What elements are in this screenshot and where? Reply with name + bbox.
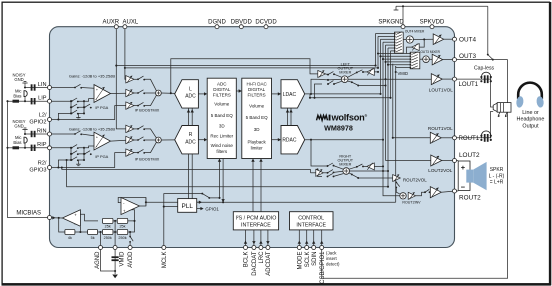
switch RIN: [74, 131, 82, 135]
node L2 col b: [70, 112, 72, 114]
node R2 tap: [57, 166, 59, 168]
op-amp micbias: [62, 210, 80, 227]
node cl2 c: [83, 112, 85, 114]
svg-text:RIP: RIP: [37, 142, 47, 148]
node lmix fb v2: [377, 71, 379, 73]
wire CSB: [321, 230, 323, 246]
node v2: [377, 67, 379, 69]
svg-text:L2/: L2/: [39, 112, 47, 118]
wire bias feed left: [19, 100, 25, 102]
switch rmix out lower: [351, 173, 359, 179]
svg-text:Rec Limiter: Rec Limiter: [210, 133, 233, 138]
svg-text:MODE: MODE: [298, 252, 304, 270]
LDAC block: [281, 80, 305, 108]
pin R2/GPIO3: [29, 160, 51, 173]
resistor 25k a: [102, 218, 113, 223]
pin ADCDAT: [266, 246, 272, 276]
svg-text:ROUT1: ROUT1: [459, 135, 480, 142]
I2S PCM audio interface label: [235, 216, 276, 229]
wire lmix b in: [318, 78, 328, 81]
node v3: [379, 93, 381, 95]
node v4 out3 tap: [382, 58, 384, 60]
wire agnd riser: [100, 232, 102, 246]
wire bias rail tap right: [8, 147, 13, 149]
node RIN junction: [24, 133, 26, 135]
wire AUXL bus: [125, 67, 378, 69]
wire R boost join mid: [144, 139, 155, 141]
wire attenuator out: [407, 47, 412, 53]
wire ROUT1VOL to pin: [441, 137, 452, 139]
switch RIP c: [71, 157, 79, 161]
svg-text:R: R: [189, 132, 193, 138]
mic bias label (left ch): [13, 88, 21, 98]
svg-text:DBVDD: DBVDD: [231, 20, 253, 26]
wire OUT3 mixer to amp: [429, 58, 432, 60]
pin OUT3: [453, 53, 477, 62]
mixer IP BOOSTMIX right: [156, 137, 162, 143]
arrow adc data: [221, 199, 224, 202]
mic bias label (right ch): [13, 135, 21, 145]
wire cluster col2: [78, 101, 84, 113]
svg-text:AUXL: AUXL: [123, 20, 139, 26]
Hi-Fi DAC filters text: [246, 82, 269, 151]
wire R2 riser to cluster: [58, 148, 71, 168]
amp ROUT1VOL: [430, 132, 441, 143]
wire rmix c to circle: [334, 174, 344, 177]
OUT4 mixer switch blades: [394, 32, 402, 52]
wire rmix upper right: [349, 167, 357, 169]
node v5a: [384, 78, 386, 80]
bus v3 LDAC: [380, 39, 382, 94]
node rcl2 c: [83, 159, 85, 161]
bus v5 left mix: [385, 45, 387, 160]
ground stub in right cluster: [76, 160, 80, 166]
node lmix lower v5: [384, 84, 386, 86]
wire opamp minus down: [79, 227, 81, 232]
svg-text:INTERFACE: INTERFACE: [296, 223, 326, 229]
wire AUXL rail: [124, 29, 127, 80]
resistor 25k b: [117, 218, 128, 223]
switch L boost aux: [137, 76, 145, 80]
pin DACDAT: [252, 246, 258, 276]
amp ROUT2: [430, 187, 441, 198]
wire vmid column: [114, 221, 116, 246]
wire left mixer out: [348, 78, 431, 80]
svg-text:ADCDAT: ADCDAT: [266, 251, 272, 276]
node vmid top: [395, 71, 397, 73]
amp LOUT1VOL: [431, 74, 442, 85]
wire wrb2: [134, 139, 138, 141]
wire R PGA out: [111, 139, 126, 142]
pin LOUT1: [453, 77, 479, 88]
OUT3 mixer switch blades: [410, 52, 418, 69]
wire OUT3 sleeve drop: [507, 60, 509, 103]
amp ROUT2VOL: [393, 174, 401, 181]
svg-text:4k: 4k: [68, 236, 72, 240]
svg-text:5 Band EQ: 5 Band EQ: [211, 113, 234, 118]
svg-text:DACDAT: DACDAT: [252, 251, 258, 276]
OUT4 mixer input lines: [376, 34, 395, 51]
node adc data join: [222, 201, 224, 203]
svg-text:SCLK: SCLK: [305, 252, 311, 268]
wire R boost join top: [144, 129, 156, 138]
svg-text:ROUT2VOL: ROUT2VOL: [403, 178, 427, 183]
wire rmix a to circle: [334, 166, 344, 170]
wire lmix upper right: [348, 72, 357, 77]
noisy gnd symbol (right ch): [22, 128, 27, 134]
RDAC block: [281, 126, 305, 154]
pin SPKGND: [378, 20, 405, 29]
boost amp R pga: [126, 136, 134, 143]
speaker driver: [466, 170, 473, 183]
wire rmix lower in: [318, 169, 323, 176]
wire sysclk: [209, 161, 219, 198]
speaker terminal box: [458, 161, 470, 191]
svg-text:OUT4: OUT4: [459, 36, 476, 43]
wire wb1: [134, 78, 138, 80]
wire rmix bypass in: [311, 172, 316, 174]
wire AUXR bus: [116, 65, 375, 67]
svg-text:SPKGND: SPKGND: [378, 20, 404, 26]
wire LOUT1 external: [457, 79, 494, 107]
svg-text:CONTROL: CONTROL: [298, 216, 324, 222]
coupling capacitor RIP: [32, 145, 35, 151]
wire L2 to boost: [52, 106, 126, 120]
wire capless select vertical: [487, 6, 489, 54]
bus v1 AUXR: [375, 34, 377, 66]
node vmid bus start: [145, 201, 147, 203]
pin AUXL: [123, 20, 139, 29]
switch L boost pga: [137, 90, 145, 94]
ADC digital filters text: [210, 82, 233, 155]
switch LIP a: [71, 98, 79, 102]
switch rmix a: [327, 163, 335, 167]
svg-text:Volume: Volume: [214, 102, 230, 107]
noisy gnd label (right ch): [12, 119, 25, 129]
svg-text:MCLK: MCLK: [162, 252, 168, 269]
switch clock select: [201, 193, 210, 199]
svg-text:Volume: Volume: [249, 104, 265, 109]
pin MCLK: [162, 246, 168, 269]
switch R boost aux: [137, 126, 145, 130]
wire lmix fb: [363, 71, 378, 73]
jack insert detect note: [326, 251, 340, 267]
jack detect wire: [322, 113, 508, 279]
switch LIP c: [71, 110, 79, 114]
ground stub in left cluster: [76, 113, 80, 119]
wire LOUT2 external: [457, 160, 459, 162]
boost amp L aux: [126, 76, 134, 83]
mic bias resistor (left ch): [13, 100, 20, 103]
svg-text:Wind noise: Wind noise: [211, 143, 234, 148]
wire RDAC out bus: [305, 139, 383, 141]
switch lmix out upper: [356, 70, 364, 74]
svg-text:GND: GND: [14, 77, 23, 82]
switch R boost pga: [137, 137, 145, 141]
svg-text:ADC: ADC: [217, 82, 227, 87]
mixer IP BOOSTMIX left: [156, 90, 162, 96]
svg-text:AVDD: AVDD: [128, 251, 134, 268]
svg-text:SDIN: SDIN: [312, 252, 318, 266]
clock pair below R ADC: [189, 154, 193, 202]
wire rmix a in: [322, 165, 328, 167]
svg-text:IP PGA: IP PGA: [95, 154, 108, 159]
control interface block: [290, 212, 334, 230]
wire L boost join bot: [144, 96, 156, 106]
wire SDIN: [313, 230, 315, 246]
wire MCLK rail: [164, 194, 203, 246]
wire LIP external: [25, 100, 48, 102]
node bias rail top: [6, 100, 8, 102]
wire LOUT1VOL to pin: [442, 78, 452, 80]
bypass amp left: [318, 70, 326, 77]
svg-text:FILTERS: FILTERS: [248, 92, 266, 97]
pin CSB/GPIO1: [320, 246, 326, 284]
switch lmix out lower: [351, 81, 359, 86]
svg-text:LIN: LIN: [38, 82, 47, 88]
wire GPIO1 out: [197, 208, 203, 210]
svg-text:Cap-less: Cap-less: [474, 66, 495, 72]
wire LIP to switch cluster: [52, 100, 72, 102]
wire v4 to rout2 mixer: [383, 171, 400, 196]
switch lmix b: [327, 81, 335, 85]
node L2 tap: [57, 118, 59, 120]
svg-text:GND: GND: [14, 124, 23, 129]
wire OUT3 box to circle: [420, 58, 423, 60]
clock pair between DACs: [288, 108, 292, 125]
wire lmix b2: [328, 78, 342, 81]
capless cap symbol LOUT1: [480, 72, 492, 83]
node rmix fb v4: [382, 165, 384, 167]
svg-text:GPIO2: GPIO2: [29, 120, 46, 126]
wire rmix b to circle: [334, 171, 344, 172]
OUT3 mixer input lines: [378, 54, 410, 68]
svg-text:Bias: Bias: [13, 140, 21, 145]
pin RIN: [37, 128, 52, 136]
ground hook symbol: [394, 6, 399, 10]
boost amp R r2: [126, 149, 134, 156]
pin ROUT2: [453, 189, 482, 202]
op-amp L IP PGA: [94, 85, 111, 103]
wire OUT4 mixer to amp: [413, 38, 433, 40]
node v8: [392, 137, 394, 139]
bus v4 RDAC: [382, 42, 384, 171]
svg-text:AUXR: AUXR: [102, 20, 119, 26]
switch rmix c: [327, 173, 335, 177]
svg-text:5 Band EQ: 5 Band EQ: [246, 115, 269, 120]
svg-text:25k: 25k: [119, 225, 125, 229]
wire ADC to DAC filters: [236, 90, 240, 92]
Hi-Fi DAC filters block: [242, 78, 272, 158]
bus v6 right aux: [387, 48, 389, 187]
svg-text:DCVDD: DCVDD: [255, 20, 277, 26]
resistor 250k b: [117, 230, 128, 235]
wire 250k right join: [128, 221, 135, 232]
svg-text:wolfson®: wolfson®: [331, 113, 368, 123]
wire R bypass bus: [62, 168, 311, 170]
svg-text:insert: insert: [326, 256, 338, 261]
OUT3 mixer switch box: [410, 52, 420, 69]
wire L ADC to filters: [198, 93, 206, 95]
wire LIN to switch: [52, 87, 76, 89]
switch rout2 in: [424, 189, 431, 193]
coupling capacitor LIN: [32, 84, 35, 90]
wire adc data down: [222, 159, 224, 203]
svg-text:limiter: limiter: [251, 145, 264, 150]
wire hp fb bus: [310, 94, 391, 98]
node SPKGND tap: [402, 5, 404, 7]
svg-text:GPIO1: GPIO1: [205, 207, 219, 212]
switch lmix a: [327, 72, 335, 76]
node AUXL bus tap: [124, 67, 126, 69]
node hp fb: [309, 97, 311, 99]
headphone jack plug: [493, 103, 511, 117]
right output mixer label: [337, 154, 353, 166]
switch rmix b: [327, 170, 335, 174]
mixer OUT4 circle: [406, 36, 413, 43]
svg-text:SPKVDD: SPKVDD: [420, 20, 445, 26]
noisy gnd symbol (left ch): [22, 82, 27, 88]
wire 25k right join: [121, 210, 135, 221]
svg-text:INTERFACE: INTERFACE: [241, 223, 271, 229]
node v1: [374, 65, 376, 67]
wire rmix b in: [323, 172, 327, 174]
amp ROUT2INV: [408, 192, 415, 199]
wire mid bus a: [146, 201, 396, 203]
svg-text:RIN: RIN: [37, 128, 47, 134]
node v5 out3 tap: [384, 61, 386, 63]
svg-text:LOUT1VOL: LOUT1VOL: [429, 88, 453, 93]
wire L boost join mid: [144, 92, 155, 94]
wire wb3: [134, 105, 138, 107]
mic bias resistor (right ch): [13, 146, 20, 149]
node hp ref tap: [170, 92, 172, 94]
switch rmix out upper: [356, 164, 364, 168]
wire wb2: [134, 92, 138, 94]
svg-text:FILTERS: FILTERS: [213, 92, 231, 97]
svg-text:ROUT1VOL: ROUT1VOL: [428, 126, 453, 131]
svg-text:Hi-Fi DAC: Hi-Fi DAC: [246, 82, 267, 87]
pin BCLK: [244, 246, 250, 268]
wire AGND external: [101, 250, 116, 272]
wire R aux send bus: [67, 160, 388, 187]
OUT4 mixer switch box: [395, 32, 404, 53]
wire 4k to 5k: [75, 231, 88, 233]
wire bias feed right: [19, 147, 25, 149]
wire ROUT2 to pin: [441, 190, 452, 193]
clock pair between ADCs: [189, 108, 193, 125]
node LIP junction: [24, 100, 26, 102]
pin LOUT2: [453, 152, 481, 162]
node r250 join: [133, 220, 135, 222]
wire OUT3 external: [457, 59, 508, 61]
wire rmix to ROUT1VOL: [393, 137, 431, 139]
svg-text:25k: 25k: [105, 225, 111, 229]
wire AUXR rail: [116, 29, 126, 129]
wire dac data up a: [252, 161, 254, 212]
svg-text:Headphone: Headphone: [517, 117, 545, 123]
pin VMID: [113, 246, 125, 267]
wire VMID external: [114, 250, 116, 275]
node sysclk: [218, 197, 220, 199]
wire vmid to out3 row: [395, 66, 397, 68]
wire L boost join top: [144, 79, 156, 90]
bus v8 rmix up: [392, 64, 394, 138]
headphone icon: [516, 83, 545, 108]
wire headphone ref bus: [171, 59, 318, 93]
speaker cone: [473, 162, 486, 190]
svg-text:IP BOOSTMIX: IP BOOSTMIX: [135, 109, 160, 113]
svg-text:VMID: VMID: [120, 251, 126, 267]
svg-text:Gains: -12dB to +35.25dB: Gains: -12dB to +35.25dB: [69, 73, 115, 78]
svg-text:ROUT2: ROUT2: [459, 195, 481, 202]
wire boostmix to R ADC: [161, 139, 175, 141]
node R2 col c: [70, 147, 72, 149]
svg-text:250k: 250k: [118, 236, 126, 240]
node v2 out3 tap: [377, 52, 379, 54]
wire R ADC to filters: [198, 139, 206, 141]
switch RIP b: [71, 151, 79, 155]
node r1: [79, 231, 81, 233]
wire rout2 sw to amp: [429, 191, 432, 193]
node v7: [389, 97, 391, 99]
wire right mixer out: [350, 170, 389, 172]
svg-text:DGND: DGND: [208, 20, 226, 26]
node lmix lower tap: [313, 97, 315, 99]
wire avdd top stub: [129, 232, 131, 237]
svg-text:RDAC: RDAC: [282, 138, 297, 144]
wire rmix lower right: [349, 173, 393, 178]
wire lmix a to circle: [334, 74, 342, 77]
svg-text:L - (-R): L - (-R): [489, 173, 505, 179]
svg-text:IP BOOSTMIX: IP BOOSTMIX: [135, 158, 160, 162]
svg-text:DIGITAL: DIGITAL: [213, 87, 231, 92]
node vmid col bot: [114, 231, 116, 233]
arrow sysclk into filters: [218, 159, 221, 162]
node rcl2 b: [83, 153, 85, 155]
node lmix b: [327, 79, 329, 81]
feedback amp left: [367, 68, 374, 75]
wire ldac to left mixer: [311, 79, 318, 94]
svg-text:ROUT2INV: ROUT2INV: [402, 201, 421, 205]
wire R2 to boost: [52, 153, 126, 168]
wire R boost join bot: [144, 142, 156, 152]
svg-text:IP PGA: IP PGA: [95, 105, 108, 110]
node v3 out3 tap: [379, 55, 381, 57]
feedback amp right: [367, 163, 374, 170]
wire filters to RDAC: [272, 139, 280, 141]
amp OUT4 to OUT3 attenuator: [412, 44, 420, 51]
pin LIN: [38, 82, 52, 90]
pin SDIN: [312, 246, 318, 266]
resistor 4k: [65, 230, 75, 235]
node rdac tap: [310, 139, 312, 141]
node v6 rmixout tap: [387, 170, 389, 172]
pin SPKVDD: [420, 20, 445, 29]
node OUT4 fb tap: [423, 38, 425, 40]
ADC digital filters block: [207, 78, 236, 158]
ground arrow below VMID cap: [112, 275, 118, 279]
L ADC label: [185, 86, 196, 99]
wire MICBIAS rail: [8, 101, 48, 217]
VMID decoupling capacitor: [112, 257, 119, 260]
svg-text:GPIO3: GPIO3: [29, 168, 46, 174]
svg-text:R2/: R2/: [38, 160, 47, 166]
L ADC block: [175, 80, 199, 108]
switch LIN: [74, 84, 82, 88]
switch L boost l2: [137, 102, 145, 106]
svg-text:Playback: Playback: [247, 139, 266, 144]
